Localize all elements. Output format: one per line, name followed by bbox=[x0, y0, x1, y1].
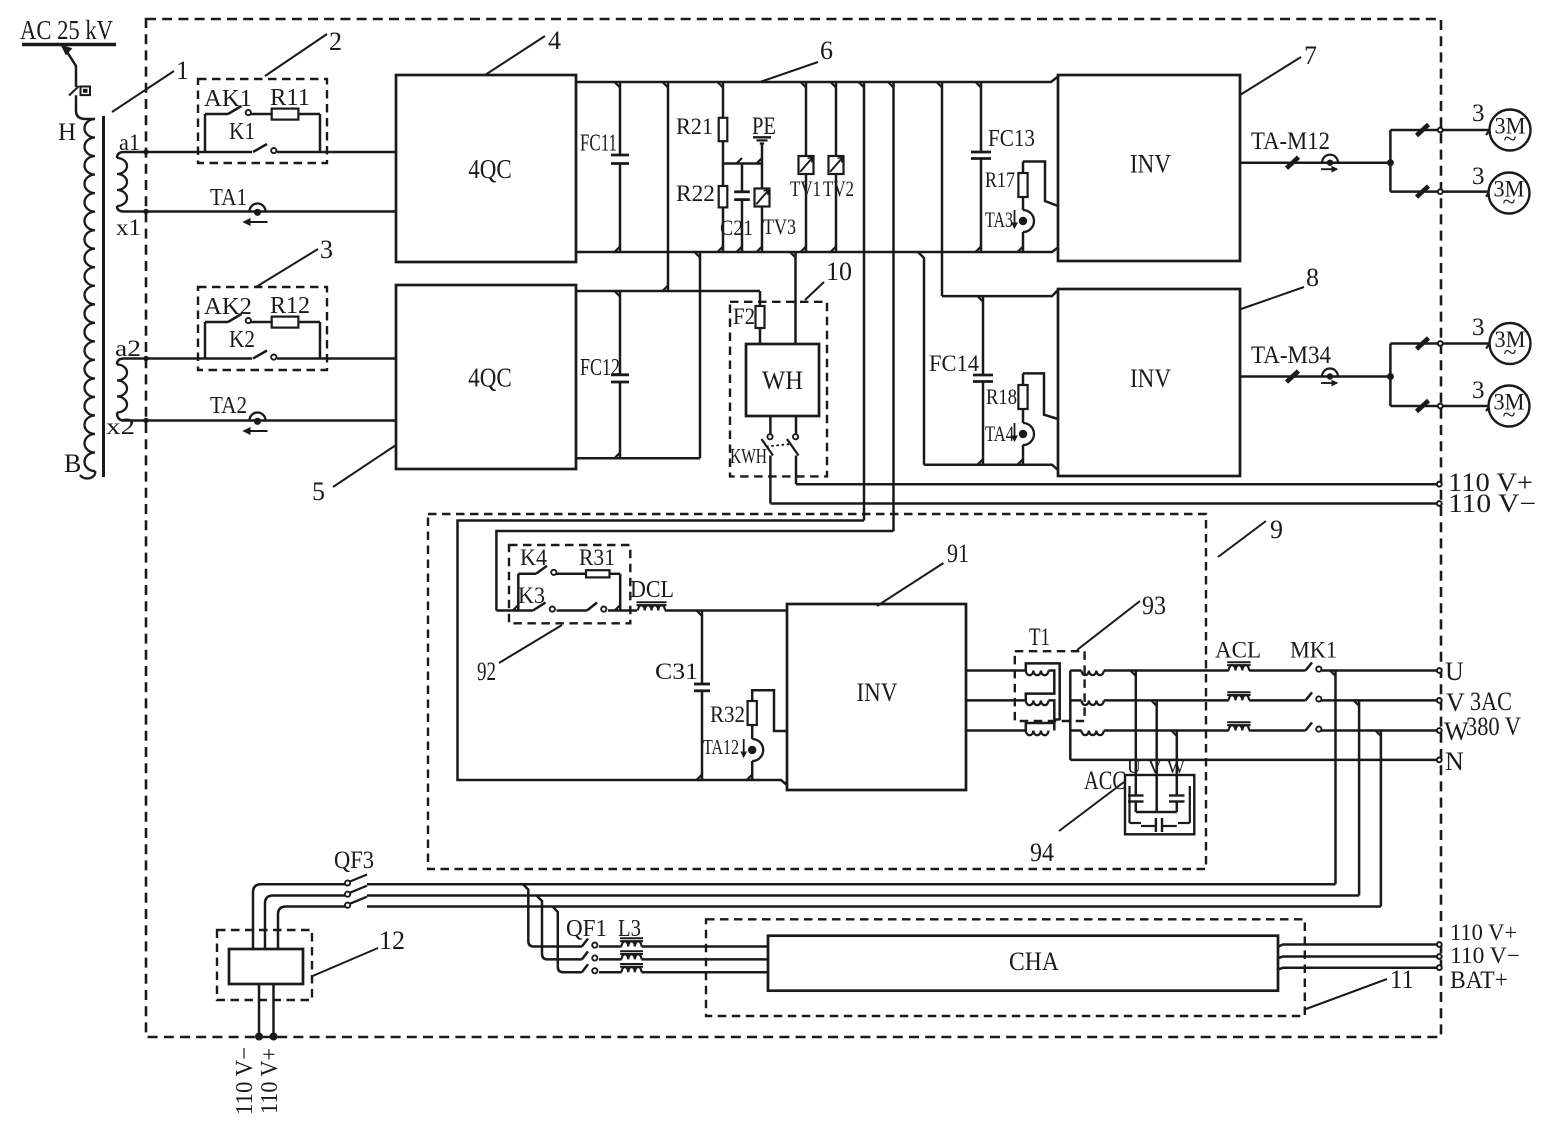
unit 9 box (dashed) bbox=[428, 514, 1206, 869]
wire DC bus 2 minus bbox=[576, 457, 700, 460]
wire U drop to bus bbox=[1334, 671, 1337, 885]
label 10 pointer bbox=[805, 282, 824, 300]
wire charger out 1 bbox=[1278, 945, 1438, 947]
svg-text:11: 11 bbox=[1390, 965, 1414, 994]
label 9 pointer bbox=[1218, 521, 1266, 557]
capacitor FC11 bbox=[619, 82, 622, 155]
svg-text:8: 8 bbox=[1306, 263, 1319, 292]
switch K4 bbox=[536, 566, 547, 574]
svg-text:2: 2 bbox=[329, 27, 342, 56]
wire tap 2 to QF1 bbox=[537, 896, 582, 960]
svg-text:110 V−: 110 V− bbox=[1450, 943, 1520, 968]
node motor branch 2 bbox=[1387, 373, 1394, 380]
label 91 pointer bbox=[877, 563, 944, 606]
svg-text:92: 92 bbox=[477, 657, 496, 686]
wire DC bus 1 minus bbox=[576, 248, 1058, 253]
wire W drop to bus bbox=[1380, 731, 1383, 907]
svg-text:FC13: FC13 bbox=[988, 126, 1035, 152]
inductor L3 c bbox=[622, 967, 642, 972]
resistor R31 bbox=[586, 570, 610, 577]
svg-text:TV3: TV3 bbox=[763, 214, 796, 239]
svg-text:INV: INV bbox=[1130, 364, 1171, 393]
wire FC14 bottom bus bbox=[924, 465, 1058, 470]
transformer T1 primary bbox=[1026, 671, 1049, 676]
transformer primary winding H bbox=[84, 119, 95, 471]
inductor L3 b bbox=[622, 954, 642, 959]
label 94 pointer bbox=[1059, 782, 1124, 831]
converter 4QC U4 bbox=[396, 75, 576, 262]
svg-text:TA12: TA12 bbox=[703, 735, 739, 759]
svg-text:~: ~ bbox=[1503, 403, 1516, 429]
svg-text:x2: x2 bbox=[106, 414, 135, 439]
svg-text:4: 4 bbox=[548, 26, 561, 55]
junction bumps bbox=[615, 82, 621, 88]
wire charger out 2 bbox=[1278, 957, 1438, 959]
brake resistor WH bbox=[746, 344, 819, 416]
wire DC bus 1 plus bbox=[576, 77, 1058, 83]
wire rail to aux outer bbox=[863, 82, 866, 521]
transformer secondary winding a2-x2 bbox=[117, 359, 124, 365]
svg-text:T1: T1 bbox=[1029, 624, 1050, 651]
inductor ACL V bbox=[1229, 695, 1249, 700]
motor 3M no2 bbox=[1489, 173, 1530, 214]
label 2 pointer bbox=[265, 34, 327, 76]
voltage transducer TV3 bbox=[761, 164, 764, 190]
svg-text:FC14: FC14 bbox=[929, 351, 979, 376]
motor 3M no1 bbox=[1490, 110, 1531, 151]
switch QF1 pole2 bbox=[582, 951, 588, 959]
svg-text:QF3: QF3 bbox=[334, 847, 374, 874]
svg-text:B: B bbox=[64, 449, 81, 478]
wire a1 bbox=[124, 151, 396, 154]
voltage transducer TV1 bbox=[805, 82, 808, 156]
wire neutral N bbox=[1070, 759, 1438, 762]
svg-text:K2: K2 bbox=[229, 327, 255, 353]
svg-text:12: 12 bbox=[379, 926, 405, 955]
svg-text:AK2: AK2 bbox=[204, 294, 252, 320]
wire K4-R31 branch bbox=[518, 573, 536, 576]
svg-text:3: 3 bbox=[1472, 377, 1485, 404]
wire x1 bbox=[124, 210, 396, 213]
svg-text:WH: WH bbox=[762, 366, 803, 395]
wire WH right lead bbox=[794, 252, 797, 344]
label 7 pointer bbox=[1240, 57, 1301, 95]
resistor R22 bbox=[722, 141, 725, 186]
wire ACC drop W bbox=[1176, 731, 1179, 796]
wire 110V minus line bbox=[770, 502, 1438, 505]
converter 4QC U5 bbox=[396, 285, 576, 469]
svg-text:380 V: 380 V bbox=[1466, 712, 1521, 741]
wire ACC drop V bbox=[1155, 700, 1158, 812]
charger CHA bbox=[768, 936, 1278, 991]
node motor branch 1 bbox=[1387, 159, 1394, 166]
switch KWH pole B bbox=[795, 416, 798, 434]
svg-text:93: 93 bbox=[1142, 591, 1166, 620]
wire V drop to bus bbox=[1358, 700, 1361, 895]
svg-text:CHA: CHA bbox=[1009, 947, 1059, 976]
wire link rail bbox=[667, 82, 670, 291]
catenary busbar bbox=[22, 43, 116, 47]
wire 110V plus line bbox=[796, 483, 1438, 486]
motor 3M no4 bbox=[1489, 386, 1530, 427]
switch AK2 bbox=[228, 314, 242, 322]
label 4 pointer bbox=[485, 36, 545, 75]
svg-text:6: 6 bbox=[820, 36, 833, 65]
svg-text:TA4: TA4 bbox=[985, 421, 1014, 446]
svg-text:110 V+: 110 V+ bbox=[257, 1048, 283, 1114]
svg-text:R21: R21 bbox=[676, 114, 713, 139]
resistor R17 with sensor TA3 bbox=[1022, 232, 1025, 252]
svg-text:R12: R12 bbox=[270, 293, 310, 319]
svg-text:TA3: TA3 bbox=[985, 207, 1013, 232]
wire branch AK2-R12 bbox=[205, 321, 228, 324]
wire tap 1 to QF1 bbox=[523, 884, 582, 946]
svg-text:9: 9 bbox=[1270, 515, 1283, 544]
switch K3 bbox=[496, 609, 533, 612]
svg-text:R22: R22 bbox=[676, 181, 715, 206]
inverter INV U91 bbox=[787, 604, 966, 790]
svg-text:N: N bbox=[1445, 747, 1464, 776]
wire to motor 4 bbox=[1390, 405, 1489, 408]
switch K2 bbox=[252, 352, 277, 363]
svg-text:AC 25 kV: AC 25 kV bbox=[20, 15, 113, 45]
wire to transformer primary bbox=[76, 95, 95, 119]
wire tap 3 to QF1 bbox=[553, 907, 582, 973]
svg-text:FC11: FC11 bbox=[580, 131, 617, 157]
svg-text:R18: R18 bbox=[986, 384, 1017, 409]
voltage transducer TV2 bbox=[835, 82, 838, 156]
svg-text:TA2: TA2 bbox=[210, 393, 247, 419]
svg-text:TA-M34: TA-M34 bbox=[1251, 342, 1331, 369]
wire FC14 top bus bbox=[942, 290, 1058, 296]
wire rail to link2 plus bbox=[941, 82, 944, 296]
unit 12 box (dashed) bbox=[217, 930, 312, 1000]
transformer secondary winding a1-x1 bbox=[117, 152, 124, 158]
label 93 pointer bbox=[1077, 601, 1140, 650]
svg-text:U: U bbox=[1445, 657, 1464, 686]
wire 3AC line 1 bbox=[367, 883, 1336, 886]
svg-text:R31: R31 bbox=[579, 545, 615, 570]
label 3 pointer bbox=[256, 249, 318, 287]
unit 92 box (dashed) bbox=[509, 545, 630, 623]
transformer T1 secondary bbox=[1069, 671, 1072, 760]
connector block 12 bbox=[229, 949, 303, 984]
label 8 pointer bbox=[1241, 287, 1304, 309]
svg-text:3: 3 bbox=[1472, 314, 1485, 341]
wire aux feed minus bbox=[496, 531, 893, 611]
terminal N bbox=[1437, 758, 1442, 763]
wire phase W bbox=[1104, 729, 1229, 732]
inductor ACL W bbox=[1229, 725, 1249, 730]
svg-text:~: ~ bbox=[1504, 340, 1517, 366]
wire to motor 1 bbox=[1390, 129, 1489, 132]
terminal V bbox=[1437, 698, 1442, 703]
capacitor FC14 bbox=[982, 296, 985, 375]
switch K1 bbox=[252, 145, 277, 156]
wire a2 bbox=[124, 357, 396, 360]
unit 3 box (dashed) bbox=[198, 287, 327, 370]
switch KWH pole A bbox=[769, 416, 772, 434]
svg-text:FC12: FC12 bbox=[580, 355, 620, 381]
capacitor C31 bbox=[701, 611, 704, 685]
transformer core bbox=[102, 116, 105, 477]
motor 3M no3 bbox=[1490, 323, 1531, 364]
switch MK1 U bbox=[1306, 663, 1313, 671]
resistor R12 bbox=[272, 317, 299, 328]
svg-text:3: 3 bbox=[1472, 100, 1485, 127]
resistor R18 with sensor TA4 bbox=[1022, 445, 1025, 465]
svg-text:H: H bbox=[58, 119, 76, 146]
svg-text:TV1: TV1 bbox=[790, 176, 821, 201]
unit 93 box (dashed) bbox=[1015, 651, 1085, 721]
resistor R21 bbox=[722, 82, 725, 118]
wire rail bus1minus to bus2minus bbox=[699, 252, 702, 458]
switch K3b bbox=[557, 609, 588, 612]
wire charger out 3 bbox=[1278, 968, 1438, 970]
svg-text:R17: R17 bbox=[985, 167, 1015, 192]
converter cabinet boundary (dashed) bbox=[146, 19, 1441, 1037]
switch QF1 pole3 bbox=[582, 964, 588, 972]
wire to motor 2 bbox=[1390, 190, 1489, 193]
capacitor FC12 bbox=[619, 291, 622, 375]
svg-text:PE: PE bbox=[752, 113, 776, 140]
svg-text:R32: R32 bbox=[710, 702, 745, 727]
wire INV91 outputs bbox=[966, 669, 1026, 672]
svg-text:94: 94 bbox=[1030, 838, 1054, 867]
svg-text:ACL: ACL bbox=[1215, 638, 1261, 663]
svg-text:KWH: KWH bbox=[730, 444, 767, 468]
svg-text:91: 91 bbox=[947, 539, 969, 568]
svg-text:F2: F2 bbox=[733, 304, 755, 329]
label 11 pointer bbox=[1306, 979, 1387, 1009]
svg-text:110 V−: 110 V− bbox=[1448, 489, 1536, 518]
svg-text:TV2: TV2 bbox=[823, 176, 854, 201]
switch AK1 bbox=[228, 106, 242, 114]
wire rail to link2 minus bbox=[918, 252, 924, 465]
label 6 pointer bbox=[760, 62, 818, 82]
svg-text:INV: INV bbox=[857, 678, 898, 707]
svg-text:BAT+: BAT+ bbox=[1450, 967, 1508, 994]
svg-text:TA1: TA1 bbox=[210, 185, 247, 211]
svg-text:R11: R11 bbox=[270, 85, 310, 111]
svg-text:QF1: QF1 bbox=[566, 916, 607, 942]
svg-text:4QC: 4QC bbox=[468, 154, 512, 184]
svg-text:ACC: ACC bbox=[1084, 766, 1126, 795]
wire INV2 output TA-M34 bbox=[1240, 375, 1390, 378]
inverter INV U7 bbox=[1058, 75, 1240, 261]
wire 3AC line 3 bbox=[367, 905, 1381, 908]
unit 11 box (dashed) bbox=[706, 919, 1305, 1016]
capacitor C21 bbox=[741, 164, 744, 192]
label 1 pointer bbox=[112, 71, 174, 112]
wire aux feed plus bbox=[458, 521, 865, 786]
svg-text:C21: C21 bbox=[720, 215, 753, 240]
svg-text:~: ~ bbox=[1503, 190, 1516, 216]
svg-text:7: 7 bbox=[1304, 41, 1317, 70]
switch MK1 W bbox=[1306, 723, 1313, 731]
svg-text:10: 10 bbox=[826, 257, 852, 286]
svg-text:C31: C31 bbox=[655, 659, 698, 684]
inductor ACL U bbox=[1229, 665, 1249, 670]
current sensor TA-M12 bbox=[1322, 155, 1338, 163]
wire R21-R22 junction branch bbox=[723, 162, 762, 165]
resistor R32 with sensor TA12 bbox=[752, 690, 787, 731]
wire x2 bbox=[124, 419, 396, 422]
current sensor TA2 bbox=[250, 413, 266, 421]
svg-text:MK1: MK1 bbox=[1290, 638, 1337, 663]
wire INV1 output TA-M12 bbox=[1240, 161, 1390, 164]
terminal U bbox=[1437, 668, 1442, 673]
current sensor TA-M34 bbox=[1322, 369, 1338, 377]
unit 2 box (dashed) bbox=[198, 79, 327, 163]
wire terminals 110V bbox=[258, 984, 261, 1034]
capacitor bank ACC bbox=[1125, 775, 1194, 834]
svg-text:4QC: 4QC bbox=[468, 363, 512, 393]
svg-text:110 V+: 110 V+ bbox=[1450, 920, 1517, 945]
label 92 pointer bbox=[499, 625, 562, 663]
svg-text:DCL: DCL bbox=[630, 577, 674, 603]
svg-text:INV: INV bbox=[1130, 150, 1171, 179]
unit 10 box (dashed) bbox=[730, 302, 827, 477]
switch KWH coupling bbox=[766, 444, 791, 447]
resistor R11 bbox=[272, 109, 299, 120]
wire 3AC line 2 bbox=[367, 894, 1359, 897]
svg-text:3: 3 bbox=[320, 235, 333, 264]
switch MK1 V bbox=[1306, 692, 1313, 700]
svg-text:3: 3 bbox=[1472, 163, 1485, 190]
svg-text:V: V bbox=[1446, 688, 1465, 717]
svg-text:K1: K1 bbox=[229, 119, 255, 145]
terminal W bbox=[1437, 728, 1442, 733]
svg-text:K3: K3 bbox=[518, 583, 545, 608]
wire DC bus 2 plus bbox=[576, 290, 760, 293]
wire ACC drop U bbox=[1135, 671, 1138, 796]
svg-text:5: 5 bbox=[312, 477, 325, 506]
wire rail to aux inner bbox=[892, 82, 895, 531]
svg-text:K4: K4 bbox=[520, 545, 547, 570]
svg-text:110 V−: 110 V− bbox=[232, 1047, 258, 1115]
svg-text:~: ~ bbox=[1504, 127, 1517, 153]
disconnector switch bbox=[81, 87, 91, 96]
fuse F2 bbox=[759, 291, 762, 306]
wire to motor 3 bbox=[1390, 342, 1489, 345]
wire pantograph drop bbox=[63, 46, 76, 88]
wire branch AK1-R11 bbox=[205, 113, 228, 116]
capacitor FC13 bbox=[980, 82, 983, 152]
inverter INV U8 bbox=[1058, 289, 1240, 476]
svg-text:x1: x1 bbox=[116, 215, 141, 240]
svg-text:1: 1 bbox=[176, 56, 189, 85]
label 5 pointer bbox=[333, 445, 396, 487]
label 12 pointer bbox=[313, 948, 378, 976]
wire phase V bbox=[1104, 699, 1229, 702]
svg-text:AK1: AK1 bbox=[204, 86, 252, 112]
inductor DCL bbox=[638, 605, 665, 610]
wire phase U bbox=[1104, 669, 1229, 672]
svg-text:TA-M12: TA-M12 bbox=[1251, 128, 1330, 155]
current sensor TA1 bbox=[250, 204, 266, 212]
